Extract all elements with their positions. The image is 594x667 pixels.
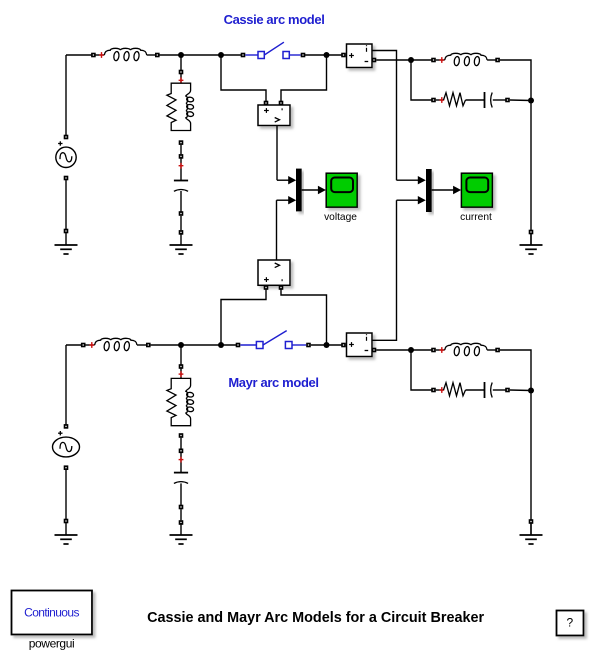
wire node E down to ground G3: [530, 101, 532, 233]
port L2 left: [431, 58, 436, 63]
wire L4 to node J: [500, 350, 531, 391]
port cap C1 top: [179, 154, 184, 159]
svg-text:voltage: voltage: [324, 212, 357, 223]
port voltmeter Vm2 +: [264, 285, 269, 290]
wire junction to RL branch top: [180, 55, 182, 72]
port breaker B1 left: [241, 53, 246, 58]
node B junction: [218, 52, 224, 58]
port V2 bottom: [64, 465, 69, 470]
wire node J down to ground G6: [530, 391, 532, 522]
port RL branch 2 bottom: [179, 433, 184, 438]
parallel RL branch 2 (resistor + inductor): [167, 378, 181, 425]
resistor R4 zigzag: [444, 383, 466, 396]
wire L2 coil to port: [487, 59, 498, 61]
wire L4 coil to port: [487, 349, 498, 351]
inductor L1 coil: [104, 48, 146, 55]
ground G6: [520, 523, 543, 544]
port RL branch 1 bottom: [179, 140, 184, 145]
signal mux M2 output to current scope: [432, 186, 461, 194]
node D junction: [408, 57, 414, 63]
port L2 right: [495, 58, 500, 63]
wire cap C1 to ground G2: [180, 216, 182, 230]
port L3 left: [81, 343, 86, 348]
port ground G5: [179, 520, 184, 525]
wire Im2 - output: [376, 349, 411, 351]
polarity + RC branch 1: [439, 97, 444, 103]
wire R2 to cap C2: [466, 99, 485, 101]
help block question mark: [557, 611, 584, 636]
wire node F to voltmeter Vm2 + input: [221, 288, 266, 345]
port V1 top: [64, 135, 69, 140]
wire RL branch to cap C1: [180, 145, 182, 154]
wire node D down to RC branch 1: [411, 60, 434, 100]
wire port to R2: [436, 99, 444, 101]
port ammeter Im1 +: [341, 53, 346, 58]
wire Im1 i-output to current mux: [372, 51, 397, 181]
port ammeter Im1 -: [372, 58, 377, 63]
wire source V1 to ground G1: [65, 178, 67, 231]
svg-text:Continuous: Continuous: [24, 606, 79, 620]
wire bottom between L3 and breaker B2: [151, 344, 238, 346]
port breaker B2 left: [236, 343, 241, 348]
svg-text:Cassie arc model: Cassie arc model: [224, 12, 325, 27]
ground G1: [55, 233, 78, 254]
mux M2 (current): [426, 169, 432, 212]
polarity + RLC branch 2: [179, 371, 184, 377]
powergui block: [12, 591, 93, 635]
wire Im1 - output: [376, 59, 411, 61]
inductor L2 coil (top right): [445, 53, 487, 60]
node G junction: [324, 342, 330, 348]
svg-text:powergui: powergui: [29, 637, 75, 651]
wire port to L2 coil: [436, 59, 445, 61]
svg-text:?: ?: [566, 616, 573, 630]
node H junction: [178, 342, 184, 348]
circuit breaker B1 (Cassie arc model): [245, 42, 300, 58]
wire C2 to port: [493, 99, 508, 101]
capacitor C2: [485, 92, 493, 108]
ground G5: [170, 523, 193, 544]
wire to cap C1 plate: [180, 158, 182, 181]
signal mux M1 output to voltage scope: [302, 186, 326, 194]
scope voltage: [326, 173, 357, 207]
current measurement block Im2: [347, 333, 373, 357]
polarity + of inductor L1: [99, 52, 104, 58]
circuit breaker B2 (Mayr arc model): [240, 331, 306, 349]
polarity + inductor L2: [439, 57, 444, 63]
capacitor C1: [174, 181, 188, 192]
polarity + cap C1: [179, 163, 184, 169]
wire port to RL branch 1: [180, 73, 182, 83]
node J junction: [528, 388, 534, 394]
signal i1 to mux M2 input 1: [397, 176, 426, 184]
port ground G4: [64, 519, 69, 524]
port V2 top: [64, 424, 69, 429]
port RC branch 2 right: [505, 388, 510, 393]
node I junction: [408, 347, 414, 353]
ground G2: [170, 233, 193, 254]
signal Vm1 to mux M1 input 1: [277, 176, 296, 184]
wire RC branch 1 to node E: [510, 99, 531, 102]
port breaker B1 right: [301, 53, 306, 58]
port ammeter Im2 -: [372, 348, 377, 353]
voltage measurement block Vm1: [258, 105, 290, 126]
AC voltage source V1 circle with sine: [56, 147, 76, 167]
wire source V1 top vertical: [65, 55, 67, 137]
port cap C3 top: [179, 449, 184, 454]
wire Vm1 output down: [276, 126, 278, 180]
port cap C1 bottom: [179, 211, 184, 216]
port ground G2: [179, 230, 184, 235]
wire cap C1 bottom lead: [180, 191, 182, 214]
wire node B to voltmeter Vm1 + input: [221, 55, 266, 101]
port ground G3: [529, 230, 534, 235]
port RLC branch 2 top: [179, 364, 184, 369]
resistor R2 zigzag: [444, 93, 466, 106]
parallel RL branch 1 (resistor + inductor): [167, 83, 181, 130]
port ammeter Im2 +: [341, 343, 346, 348]
current measurement block Im1: [347, 44, 373, 68]
wire port to L4 coil: [436, 349, 445, 351]
port RC branch 1 left: [431, 98, 436, 103]
port voltmeter Vm1 -: [279, 101, 284, 106]
port ground G1: [64, 229, 69, 234]
wire node I to inductor L4: [411, 349, 434, 351]
wire port to L1 coil: [93, 54, 104, 56]
capacitor C3: [174, 473, 188, 484]
wire port to RL branch 2: [180, 368, 182, 379]
port voltmeter Vm1 +: [264, 101, 269, 106]
wire node C to voltmeter Vm1 - input: [281, 55, 327, 101]
port L4 left: [431, 348, 436, 353]
polarity + RLC branch 1: [179, 77, 184, 83]
node C junction: [324, 52, 330, 58]
inductor L4 coil (bottom right): [445, 343, 487, 350]
wire Im2 i-output to current mux: [372, 200, 397, 340]
polarity + cap C3: [179, 457, 184, 463]
port L4 right: [495, 348, 500, 353]
port ground G6: [529, 519, 534, 524]
wire cap C3 bottom lead: [180, 483, 182, 507]
port RC branch 1 right: [505, 98, 510, 103]
inductor L3 coil: [95, 338, 137, 345]
ground G3: [520, 233, 543, 254]
port cap C3 bottom: [179, 505, 184, 510]
wire R4 to cap C4: [466, 389, 485, 391]
wire L3 coil to port: [137, 344, 148, 346]
wire junction to RL branch 2 top: [180, 345, 182, 367]
wire node G to voltmeter Vm2 - input: [281, 288, 327, 345]
polarity + of inductor L3: [89, 342, 94, 348]
wire RC branch 2 to node J: [510, 389, 531, 392]
voltage measurement block Vm2: [258, 260, 290, 285]
scope current: [461, 173, 492, 207]
wire top between L1 and breaker B1: [160, 54, 244, 56]
wire main top-left segment: [66, 54, 93, 56]
svg-text:Mayr arc model: Mayr arc model: [228, 375, 318, 390]
wire to ground G6: [530, 522, 532, 536]
port V1 bottom: [64, 176, 69, 181]
wire Vm2 output up: [276, 200, 278, 260]
wire cap C3 to ground G5: [180, 509, 182, 520]
wire C4 to port: [493, 389, 508, 391]
wire L1 coil to port: [147, 54, 158, 56]
capacitor C4: [485, 382, 493, 398]
polarity + RC branch 2: [439, 387, 444, 393]
polarity + inductor L4: [439, 347, 444, 353]
svg-text:Cassie and Mayr Arc Models for: Cassie and Mayr Arc Models for a Circuit…: [147, 610, 484, 626]
wire port to L3 coil: [83, 344, 94, 346]
wire to cap C3 plate: [180, 452, 182, 473]
wire to ground G3: [530, 232, 532, 245]
wire source V2 top vertical: [65, 345, 67, 426]
signal i2 to mux M2 input 2: [397, 196, 426, 204]
signal Vm2 to mux M1 input 2: [277, 196, 297, 204]
port RC branch 2 left: [431, 388, 436, 393]
port L3 right: [146, 343, 151, 348]
wire node D to inductor L2: [411, 59, 434, 61]
svg-text:current: current: [460, 212, 492, 223]
node F junction: [218, 342, 224, 348]
wire port to R4: [436, 389, 444, 391]
mux M1 (voltage): [296, 169, 302, 212]
wire breaker B2 to current meas Im2: [311, 344, 344, 346]
port L1 left: [91, 53, 96, 58]
AC voltage source V2 ellipse with sine: [53, 437, 80, 457]
port breaker B2 right: [306, 343, 311, 348]
node E junction: [528, 98, 534, 104]
port RLC branch 1 top: [179, 70, 184, 75]
port voltmeter Vm2 -: [279, 285, 284, 290]
port L1 right: [155, 53, 160, 58]
node A junction: [178, 52, 184, 58]
ground G4: [55, 523, 78, 544]
wire breaker B1 to current meas Im1: [305, 54, 344, 56]
wire main bottom-left segment: [66, 344, 83, 346]
wire source V2 to ground G4: [65, 468, 67, 521]
wire L2 to node E: [500, 60, 531, 101]
wire RL branch 2 to cap C3: [180, 438, 182, 449]
wire node I down to RC branch 2: [411, 350, 434, 390]
